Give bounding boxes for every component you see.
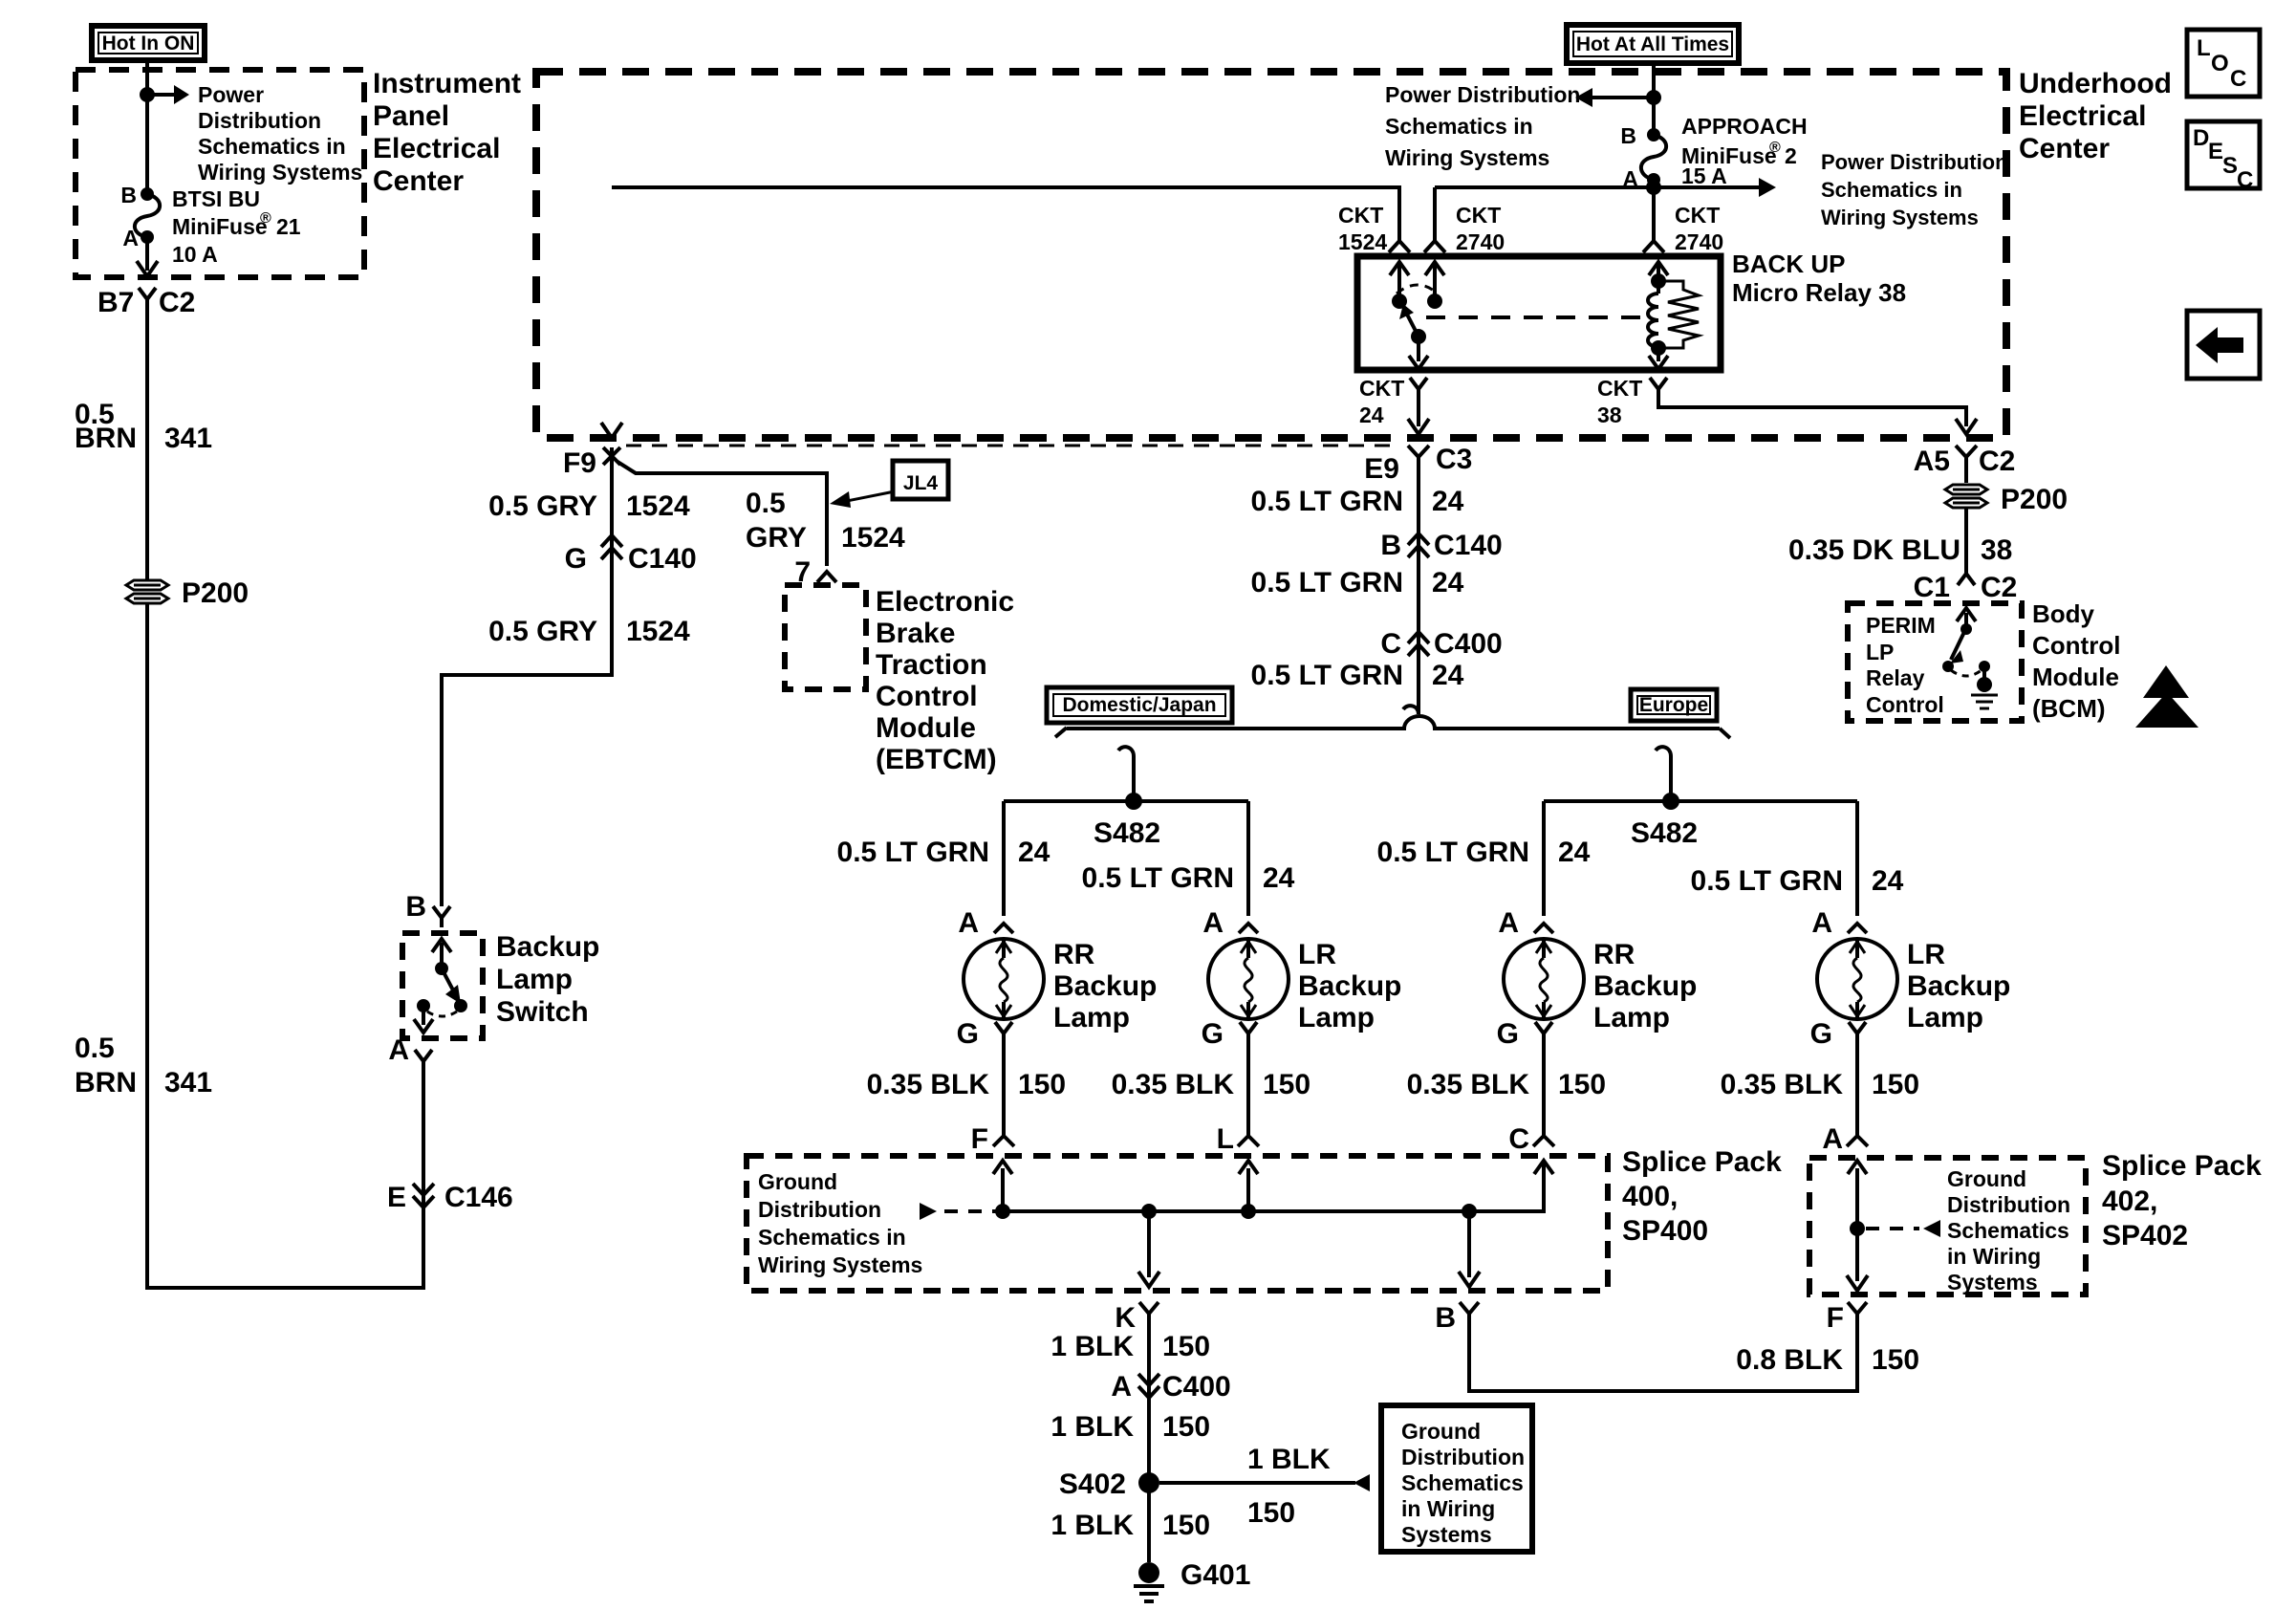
svg-text:24: 24 — [1018, 837, 1051, 868]
switch throw contact and dashed arc — [417, 999, 457, 1016]
svg-text:CKT: CKT — [1456, 203, 1501, 228]
component name Body Control Module BCM — [2032, 599, 2120, 723]
CKT 38 label and fork below relay — [1597, 376, 1667, 427]
svg-text:Lamp: Lamp — [496, 964, 573, 995]
svg-text:K: K — [1115, 1302, 1136, 1334]
svg-text:1524: 1524 — [626, 616, 690, 647]
svg-text:A5: A5 — [1914, 446, 1950, 477]
svg-text:B: B — [1620, 123, 1636, 148]
svg-text:RR: RR — [1593, 939, 1635, 970]
svg-text:0.5 LT GRN: 0.5 LT GRN — [837, 837, 989, 868]
svg-text:A: A — [1822, 1123, 1843, 1155]
svg-text:150: 150 — [1162, 1510, 1210, 1541]
wire label 0.5 GRY 1524 branch — [746, 488, 905, 554]
wire: lamp ground drop — [993, 1033, 1014, 1146]
svg-text:S482: S482 — [1094, 817, 1160, 849]
svg-text:Power Distribution: Power Distribution — [1385, 82, 1580, 107]
connector B7 C2 fork — [139, 288, 156, 306]
svg-text:Schematics in: Schematics in — [1821, 178, 1962, 202]
relay switch input pins — [1390, 262, 1444, 309]
SP400 arrow up at L — [1239, 1161, 1258, 1211]
svg-text:24: 24 — [1359, 402, 1384, 427]
label box Hot In ON — [92, 26, 205, 60]
component name RR Backup Lamp — [1053, 939, 1157, 1033]
svg-text:Control: Control — [1866, 692, 1944, 717]
wire: Hot At All Times feed — [1652, 63, 1656, 187]
svg-text:400,: 400, — [1622, 1181, 1678, 1212]
junction nodes on SP400 bus — [995, 1204, 1477, 1219]
wire label 0.8 BLK 150 — [1736, 1344, 1919, 1376]
wire: lamp ground drop — [1238, 1033, 1259, 1146]
svg-text:Hot In ON: Hot In ON — [102, 33, 195, 54]
svg-text:BTSI BU: BTSI BU — [172, 186, 260, 211]
svg-text:38: 38 — [1981, 534, 2012, 566]
svg-text:G: G — [957, 1018, 979, 1050]
svg-text:Ground: Ground — [1947, 1166, 2026, 1191]
wire label 0.5 BRN 341 upper — [75, 399, 212, 454]
svg-text:2740: 2740 — [1456, 229, 1505, 254]
SP400 internal bus — [1000, 1163, 1544, 1211]
wire: CKT 2740 bus with arrow to power distribution right — [1435, 178, 1776, 197]
svg-text:Instrument: Instrument — [373, 68, 521, 99]
connector caret A lamp — [994, 924, 1013, 933]
svg-text:Wiring Systems: Wiring Systems — [1821, 206, 1979, 229]
svg-text:BRN: BRN — [75, 1067, 137, 1099]
splice pack 402 dashed box — [1809, 1158, 2086, 1295]
svg-text:L: L — [2197, 35, 2211, 61]
svg-text:C: C — [1380, 628, 1401, 660]
svg-text:1524: 1524 — [626, 490, 690, 522]
svg-text:Power Distribution: Power Distribution — [1821, 150, 2008, 174]
svg-text:(EBTCM): (EBTCM) — [876, 744, 997, 775]
svg-text:Distribution: Distribution — [758, 1197, 881, 1222]
svg-text:Switch: Switch — [496, 996, 589, 1028]
connector A fork under switch — [415, 1050, 432, 1061]
relay coil — [1648, 262, 1668, 369]
svg-text:B: B — [405, 891, 426, 923]
svg-text:Lamp: Lamp — [1298, 1002, 1375, 1033]
wire: S482 to RR backup lamp europe — [1542, 801, 1546, 916]
wire label 0.5 LT GRN 24 lamp RR domestic — [837, 837, 1051, 868]
component name BACK UP Micro Relay 38 — [1732, 250, 1906, 307]
svg-text:Center: Center — [373, 165, 464, 197]
svg-text:Backup: Backup — [1298, 970, 1401, 1002]
svg-text:PERIM: PERIM — [1866, 613, 1936, 638]
option label JL4 box — [893, 461, 948, 499]
arrowhead exiting IP box — [137, 261, 158, 276]
svg-text:E9: E9 — [1364, 453, 1399, 485]
connector E C146 double chevron — [413, 1061, 434, 1207]
wire label 0.5 GRY 1524 upper — [488, 490, 690, 522]
note text power distribution schematics right — [1821, 150, 2008, 229]
svg-text:0.35 BLK: 0.35 BLK — [867, 1069, 990, 1100]
svg-text:0.5: 0.5 — [75, 1033, 115, 1064]
EBTCM dashed box — [785, 585, 866, 689]
backup lamp switch dashed box — [402, 933, 483, 1038]
wire: 1 BLK 150 from K to C400 — [1147, 1314, 1151, 1562]
svg-text:CKT: CKT — [1338, 203, 1383, 228]
note text ground distribution schematics SP402 — [1947, 1166, 2070, 1295]
connector caret A lamp — [1848, 924, 1867, 933]
relay switch blade — [1399, 304, 1428, 369]
svg-text:Ground: Ground — [758, 1169, 837, 1194]
svg-text:Schematics: Schematics — [1947, 1218, 2069, 1243]
wire: S482 to LR backup lamp domestic — [1246, 801, 1250, 916]
svg-text:150: 150 — [1263, 1069, 1310, 1100]
svg-text:Module: Module — [876, 712, 976, 744]
thin dashed connector face line — [626, 445, 1398, 447]
wire label 0.5 BRN 341 lower — [75, 1033, 212, 1099]
svg-text:C400: C400 — [1434, 628, 1503, 660]
svg-text:O: O — [2211, 51, 2229, 76]
wire label 0.5 LT GRN 24 first — [1251, 486, 1464, 517]
svg-text:C1: C1 — [1914, 572, 1950, 603]
svg-text:L: L — [1217, 1123, 1234, 1155]
svg-text:P200: P200 — [182, 577, 249, 609]
fuse APPROACH MiniFuse 2 — [1641, 128, 1666, 186]
arrow to power distribution note left — [1575, 88, 1654, 107]
svg-text:Europe: Europe — [1639, 694, 1708, 716]
svg-text:Distribution: Distribution — [1947, 1192, 2070, 1217]
switch blade — [442, 968, 467, 1012]
svg-text:APPROACH: APPROACH — [1681, 114, 1808, 139]
BCM perim lp relay control dashed box — [1848, 603, 2022, 721]
SP400 arrow up at F — [993, 1161, 1012, 1211]
wire: 0.35 DK BLU 38 — [1964, 508, 1968, 574]
svg-text:Lamp: Lamp — [1907, 1002, 1983, 1033]
svg-text:D: D — [2193, 125, 2209, 151]
svg-text:Systems: Systems — [1401, 1522, 1492, 1547]
wire: lamp ground drop — [1533, 1033, 1554, 1146]
svg-text:C2: C2 — [1979, 446, 2015, 477]
svg-text:Center: Center — [2019, 133, 2110, 164]
svg-text:0.35 DK BLU: 0.35 DK BLU — [1788, 534, 1960, 566]
svg-text:C400: C400 — [1162, 1371, 1231, 1403]
svg-text:402,: 402, — [2102, 1186, 2157, 1217]
DESC box — [2187, 121, 2260, 193]
grommet P200 right — [1945, 485, 1987, 508]
SP400 arrow down at B — [1459, 1211, 1480, 1287]
svg-text:S402: S402 — [1059, 1469, 1126, 1500]
back arrow box — [2187, 311, 2260, 379]
svg-text:10 A: 10 A — [172, 242, 218, 267]
svg-text:Backup: Backup — [1593, 970, 1697, 1002]
component name Splice Pack 402 SP402 — [2102, 1150, 2262, 1251]
junction node on hot feed — [1646, 90, 1661, 105]
svg-text:C: C — [1508, 1123, 1529, 1155]
svg-text:CKT: CKT — [1359, 376, 1404, 401]
svg-text:Schematics in: Schematics in — [198, 134, 346, 159]
svg-text:Splice Pack: Splice Pack — [1622, 1146, 1782, 1178]
connector B fork below SP400 — [1460, 1302, 1479, 1314]
svg-text:24: 24 — [1872, 865, 1904, 897]
svg-text:0.5 LT GRN: 0.5 LT GRN — [1251, 567, 1403, 598]
svg-text:Systems: Systems — [1947, 1270, 2038, 1295]
connector fork G lamp — [1240, 1022, 1257, 1033]
svg-text:A: A — [1811, 907, 1832, 939]
svg-text:Splice Pack: Splice Pack — [2102, 1150, 2262, 1182]
svg-text:0.5 LT GRN: 0.5 LT GRN — [1251, 486, 1403, 517]
svg-text:F9: F9 — [563, 447, 596, 479]
pointer arrow out of SP402 — [1866, 1220, 1940, 1237]
relay internal dashed link — [1426, 315, 1642, 319]
connector caret A lamp — [1534, 924, 1553, 933]
connector C1 C2 fork down — [1958, 574, 1975, 585]
svg-text:®: ® — [1769, 140, 1781, 156]
svg-text:24: 24 — [1263, 862, 1295, 894]
component name Instrument Panel Electrical Center — [373, 68, 521, 197]
option bus line with hump — [1055, 716, 1730, 738]
svg-text:Schematics in: Schematics in — [1385, 114, 1533, 139]
svg-text:24: 24 — [1432, 567, 1464, 598]
svg-text:Schematics in: Schematics in — [758, 1225, 906, 1250]
CKT 2740 label left — [1456, 203, 1505, 254]
svg-text:Electrical: Electrical — [2019, 100, 2146, 132]
svg-text:B: B — [1435, 1302, 1456, 1334]
fuse BTSI BU MiniFuse 21 — [135, 187, 160, 244]
ground distribution schematics solid box — [1381, 1405, 1532, 1552]
svg-text:RR: RR — [1053, 939, 1095, 970]
wire label 0.35 BLK 150 — [1721, 1069, 1919, 1100]
wire: 0.5 LT GRN 24 column — [1403, 457, 1419, 714]
svg-text:Electrical: Electrical — [373, 133, 500, 164]
svg-text:Ground: Ground — [1401, 1419, 1481, 1444]
svg-text:24: 24 — [1432, 660, 1464, 691]
svg-text:1 BLK: 1 BLK — [1051, 1411, 1134, 1443]
svg-text:150: 150 — [1872, 1069, 1919, 1100]
fuse text BTSI BU MiniFuse 21 10 A — [172, 186, 301, 267]
component name Splice Pack 400 SP400 — [1622, 1146, 1782, 1247]
connector fork G lamp — [1535, 1022, 1552, 1033]
svg-text:1 BLK: 1 BLK — [1247, 1444, 1331, 1475]
lamp LR backup lamp — [1208, 939, 1289, 1019]
leader arrow from JL4 to wire — [830, 491, 895, 508]
svg-text:Domestic/Japan: Domestic/Japan — [1062, 694, 1216, 716]
connector caret A lamp — [1239, 924, 1258, 933]
component name EBTCM — [876, 586, 1014, 775]
svg-text:21: 21 — [276, 214, 301, 239]
svg-text:G: G — [565, 543, 587, 575]
svg-text:150: 150 — [1558, 1069, 1606, 1100]
label box Hot At All Times — [1567, 25, 1739, 63]
wire: CKT 2740 drop to relay coil — [1643, 187, 1664, 252]
SP400 arrow down at K — [1138, 1211, 1159, 1287]
svg-text:LR: LR — [1298, 939, 1336, 970]
svg-text:24: 24 — [1558, 837, 1591, 868]
svg-text:G: G — [1202, 1018, 1224, 1050]
ESD warning triangles — [2135, 665, 2199, 728]
connector caret at EBTCM pin 7 — [817, 572, 836, 582]
svg-text:341: 341 — [164, 1067, 212, 1099]
svg-text:JL4: JL4 — [903, 472, 939, 494]
svg-text:24: 24 — [1432, 486, 1464, 517]
svg-text:Distribution: Distribution — [1401, 1445, 1525, 1469]
svg-text:Power: Power — [198, 82, 264, 107]
component name Underhood Electrical Center — [2019, 68, 2172, 164]
wire label 0.35 BLK 150 — [1407, 1069, 1606, 1100]
svg-text:Distribution: Distribution — [198, 108, 321, 133]
ground G401 — [1134, 1562, 1164, 1601]
svg-text:0.8 BLK: 0.8 BLK — [1736, 1344, 1843, 1376]
wire label 0.5 LT GRN 24 third — [1251, 660, 1464, 691]
svg-text:CKT: CKT — [1675, 203, 1720, 228]
wire: CKT 38 across to A5 — [1658, 389, 1966, 426]
svg-text:Backup: Backup — [1053, 970, 1157, 1002]
wire: 0.5 GRY 1524 branch to EBTCM — [617, 462, 827, 566]
svg-text:BACK UP: BACK UP — [1732, 250, 1845, 278]
svg-text:MiniFuse: MiniFuse — [172, 214, 268, 239]
grommet P200 left — [126, 580, 168, 603]
svg-text:Brake: Brake — [876, 618, 955, 649]
svg-text:B: B — [1380, 530, 1401, 561]
svg-text:Relay: Relay — [1866, 665, 1925, 690]
switch contact from B — [432, 939, 451, 975]
wire arrow to power distribution note — [147, 85, 189, 104]
svg-text:LR: LR — [1907, 939, 1945, 970]
svg-text:150: 150 — [1018, 1069, 1066, 1100]
svg-text:Schematics: Schematics — [1401, 1470, 1524, 1495]
svg-text:Lamp: Lamp — [1593, 1002, 1670, 1033]
wire label 0.5 LT GRN 24 second — [1251, 567, 1464, 598]
svg-text:A: A — [1498, 907, 1519, 939]
svg-text:Panel: Panel — [373, 100, 449, 132]
svg-text:0.35 BLK: 0.35 BLK — [1112, 1069, 1235, 1100]
svg-text:E: E — [387, 1182, 406, 1213]
svg-text:B7: B7 — [97, 287, 134, 318]
splice S482 domestic drop — [1004, 747, 1248, 810]
wire: 0.5 BRN 341 left run down and across bottom — [147, 306, 423, 1288]
svg-text:C: C — [2230, 66, 2246, 92]
lamp LR backup lamp — [1817, 939, 1897, 1019]
svg-text:0.5 LT GRN: 0.5 LT GRN — [1082, 862, 1234, 894]
wire label 1 BLK 150 third — [1051, 1510, 1210, 1541]
instrument panel electrical center dashed box — [76, 70, 364, 277]
lamp RR backup lamp — [1504, 939, 1584, 1019]
svg-text:Micro Relay 38: Micro Relay 38 — [1732, 278, 1906, 307]
svg-text:0.5 LT GRN: 0.5 LT GRN — [1377, 837, 1529, 868]
svg-text:341: 341 — [164, 423, 212, 454]
svg-text:1524: 1524 — [1338, 229, 1387, 254]
svg-text:F: F — [971, 1123, 988, 1155]
wire label 1 BLK 150 second — [1051, 1411, 1210, 1443]
svg-text:0.35 BLK: 0.35 BLK — [1407, 1069, 1530, 1100]
svg-text:0.5: 0.5 — [746, 488, 786, 519]
wire label 0.5 GRY 1524 lower — [488, 616, 690, 647]
svg-text:CKT: CKT — [1597, 376, 1642, 401]
svg-text:Lamp: Lamp — [1053, 1002, 1130, 1033]
wire: S482 to LR backup lamp europe — [1855, 801, 1859, 916]
svg-text:0.5 LT GRN: 0.5 LT GRN — [1691, 865, 1843, 897]
pointer arrow into SP400 bus — [920, 1203, 1000, 1220]
svg-text:0.35 BLK: 0.35 BLK — [1721, 1069, 1844, 1100]
wire: S482 to RR backup lamp domestic — [1002, 801, 1006, 916]
breakout X at F9 — [603, 447, 620, 465]
BCM relay fixed contact with ground — [1951, 661, 1998, 708]
connector fork G lamp — [995, 1022, 1012, 1033]
svg-text:1524: 1524 — [841, 522, 905, 554]
svg-text:Electronic: Electronic — [876, 586, 1014, 618]
svg-text:SP400: SP400 — [1622, 1215, 1708, 1247]
svg-text:C2: C2 — [1981, 572, 2017, 603]
connector C C400 double chevron — [1408, 632, 1429, 656]
svg-text:Traction: Traction — [876, 649, 987, 681]
svg-text:A: A — [958, 907, 979, 939]
svg-text:C3: C3 — [1436, 444, 1472, 475]
svg-text:2: 2 — [1785, 143, 1797, 168]
svg-text:in Wiring: in Wiring — [1401, 1496, 1495, 1521]
wire label 0.35 BLK 150 — [867, 1069, 1066, 1100]
junction node on fuse feed — [140, 87, 155, 102]
svg-text:Wiring Systems: Wiring Systems — [1385, 145, 1549, 170]
svg-text:Body: Body — [2032, 599, 2095, 628]
label box Domestic/Japan — [1047, 687, 1232, 723]
fuse text APPROACH MiniFuse 2 15 A — [1681, 114, 1808, 188]
switch output arrow to A — [414, 1006, 433, 1033]
SP402 internal wire — [1847, 1161, 1868, 1291]
wire label 0.5 LT GRN 24 lamp RR europe — [1377, 837, 1591, 868]
relay box BACK UP Micro Relay 38 — [1357, 256, 1721, 370]
relay control text PERIM LP Relay Control — [1866, 613, 1944, 717]
LOC box — [2187, 30, 2260, 97]
svg-text:0.5 GRY: 0.5 GRY — [488, 616, 597, 647]
svg-text:G: G — [1810, 1018, 1832, 1050]
component name Backup Lamp Switch — [496, 931, 599, 1028]
underhood electrical center dashed box — [536, 72, 2006, 438]
svg-text:1 BLK: 1 BLK — [1051, 1331, 1134, 1362]
svg-text:0.5 GRY: 0.5 GRY — [488, 490, 597, 522]
arrowhead at F9 exit — [601, 423, 622, 438]
svg-text:A: A — [122, 226, 139, 250]
svg-text:P200: P200 — [2001, 484, 2068, 515]
svg-text:C: C — [2237, 167, 2253, 193]
svg-text:F: F — [1827, 1302, 1844, 1334]
svg-text:B: B — [120, 183, 137, 207]
svg-text:LP: LP — [1866, 640, 1894, 664]
svg-text:150: 150 — [1162, 1331, 1210, 1362]
svg-text:G401: G401 — [1180, 1559, 1250, 1591]
component name LR Backup Lamp — [1298, 939, 1401, 1033]
note text ground distribution schematics SP400 — [758, 1169, 922, 1277]
wire: CKT 24 to E9 — [1417, 389, 1420, 426]
connector F fork below SP402 — [1848, 1302, 1867, 1314]
connector B C140 double chevron — [1408, 533, 1429, 557]
svg-text:150: 150 — [1872, 1344, 1919, 1376]
wire: CKT 2740 drop to relay switch — [1424, 187, 1445, 252]
wire: lamp ground drop — [1847, 1033, 1868, 1146]
svg-text:Wiring Systems: Wiring Systems — [198, 160, 362, 185]
svg-text:A: A — [1202, 907, 1224, 939]
svg-text:C140: C140 — [628, 543, 697, 575]
note text power distribution schematics top — [1385, 82, 1580, 170]
connector A C400 double chevron down — [1138, 1374, 1159, 1398]
wire label 0.35 DK BLU 38 — [1788, 534, 2012, 566]
wire label 1 BLK 150 first — [1051, 1331, 1210, 1362]
svg-text:150: 150 — [1162, 1411, 1210, 1443]
svg-text:®: ® — [260, 210, 271, 227]
svg-text:BRN: BRN — [75, 423, 137, 454]
connector B fork above switch — [433, 906, 450, 927]
svg-text:0.5 LT GRN: 0.5 LT GRN — [1251, 660, 1403, 691]
svg-text:GRY: GRY — [746, 522, 807, 554]
svg-text:150: 150 — [1247, 1497, 1295, 1529]
splice S402 — [1138, 1472, 1370, 1493]
wire label 0.35 BLK 150 — [1112, 1069, 1310, 1100]
svg-text:Hot At All Times: Hot At All Times — [1576, 33, 1729, 55]
svg-text:S482: S482 — [1631, 817, 1698, 849]
svg-text:A: A — [1111, 1371, 1132, 1403]
svg-text:Backup: Backup — [496, 931, 599, 963]
svg-text:1 BLK: 1 BLK — [1051, 1510, 1134, 1541]
